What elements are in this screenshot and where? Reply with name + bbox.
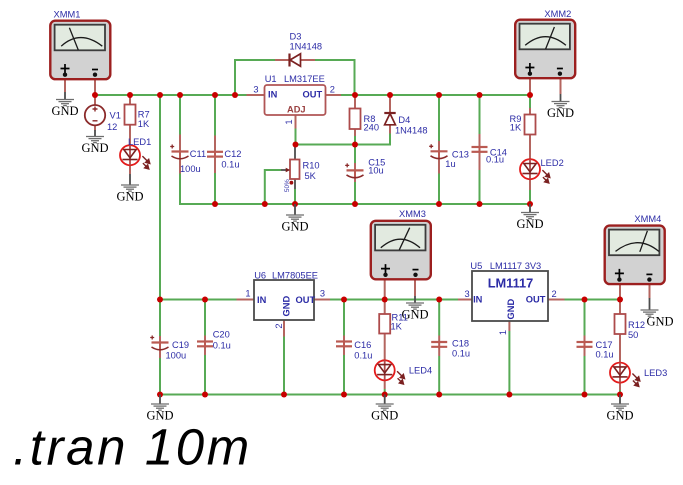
svg-text:LM1117 3V3: LM1117 3V3 xyxy=(490,261,541,271)
junction at (584.5,299.5) xyxy=(582,297,588,303)
svg-text:.tran 10m: .tran 10m xyxy=(13,419,252,476)
capacitor C11 100u xyxy=(170,145,206,175)
diode D4 1N4148 xyxy=(384,113,427,136)
wire XMM2 plus lead xyxy=(529,77,531,95)
svg-text:U1: U1 xyxy=(265,74,277,84)
junction at (355,95) xyxy=(352,92,358,98)
wire lower ground rail with C19 riser xyxy=(160,358,620,395)
wire LED2 bottom segment xyxy=(529,190,531,204)
wire C11 upper lead xyxy=(179,135,181,152)
svg-text:2: 2 xyxy=(552,289,557,299)
U6 pin number 3 xyxy=(320,289,325,299)
svg-text:XMM3: XMM3 xyxy=(399,209,426,219)
wire R8 top lead xyxy=(354,95,356,109)
wire +12V top rail left segment xyxy=(95,94,247,96)
svg-text:50%: 50% xyxy=(284,179,291,192)
wire R7 to LED1 lead xyxy=(129,125,131,146)
junction at (95,95) xyxy=(92,92,98,98)
wire D3 loop left segment xyxy=(235,60,275,95)
wire LED3 lower lead xyxy=(619,383,621,390)
regulator U6 LM7805EE xyxy=(254,270,318,320)
svg-text:OUT: OUT xyxy=(296,295,316,305)
potentiometer R10 5K 50% xyxy=(284,160,320,193)
LED LED1 xyxy=(120,137,151,169)
capacitor C12 0.1u xyxy=(207,149,241,170)
svg-text:1N4148: 1N4148 xyxy=(290,42,323,52)
capacitor C15 10u xyxy=(345,158,385,179)
wire XMM4 minus lead xyxy=(649,282,651,299)
svg-text:GND: GND xyxy=(81,141,108,155)
resistor R9 1K xyxy=(510,114,536,135)
svg-text:R7: R7 xyxy=(138,110,150,120)
LED LED3 xyxy=(610,363,667,387)
wire R12 top lead xyxy=(619,300,621,315)
wire C18 top drop xyxy=(438,300,440,336)
wire C20 top drop xyxy=(204,300,206,336)
junction at (160,299.5) xyxy=(157,297,163,303)
svg-text:1K: 1K xyxy=(391,322,403,332)
junction at (295.5,144.5) xyxy=(293,142,299,148)
wire +12V top rail right segment xyxy=(341,94,530,96)
wire U1 pin 2 lead xyxy=(326,94,342,96)
wire R8 bottom to ADJ rail xyxy=(354,136,356,145)
wire C15 top drop xyxy=(354,145,356,164)
wire C12 bottom segment xyxy=(214,173,216,204)
wire R11 top lead xyxy=(384,300,386,315)
wire U5 pin 2 lead xyxy=(548,299,565,301)
ground under XMM2 minus xyxy=(547,94,574,120)
wire R10 wiper gray segment xyxy=(281,169,286,171)
ground under XMM3 minus xyxy=(401,296,428,322)
junction at (584.5,394.5) xyxy=(582,392,588,398)
wire C18 lower lead xyxy=(438,349,440,356)
wire C20 upper lead xyxy=(204,336,206,342)
wire U6 pin 1 lead xyxy=(237,299,255,301)
junction at (530,95) xyxy=(527,92,533,98)
wire C18 bottom segment xyxy=(438,356,440,395)
wire C20 bottom segment xyxy=(204,355,206,395)
junction at (264.8,204) xyxy=(262,201,268,207)
wire R10 bottom segment xyxy=(294,189,296,204)
svg-text:1: 1 xyxy=(245,289,250,299)
svg-text:R10: R10 xyxy=(303,161,320,171)
svg-text:D3: D3 xyxy=(290,32,302,42)
wire R7 top lead xyxy=(129,95,131,105)
capacitor C14 0.1u xyxy=(472,147,507,165)
wire C16 bottom segment xyxy=(343,355,345,395)
junction at (344,394.5) xyxy=(341,392,347,398)
diode D3 1N4148 xyxy=(290,32,323,67)
junction at (284,394.5) xyxy=(281,392,287,398)
capacitor C13 1u xyxy=(429,144,469,169)
svg-text:2: 2 xyxy=(274,324,284,329)
regulator U5 LM1117 3V3 xyxy=(470,261,548,321)
resistor R12 50 xyxy=(615,314,646,340)
capacitor C20 0.1u xyxy=(197,330,231,351)
junction at (439,204) xyxy=(436,201,442,207)
wire U5 output rail segment xyxy=(565,299,621,301)
svg-text:IN: IN xyxy=(257,295,267,305)
svg-text:0.1u: 0.1u xyxy=(596,350,614,360)
wire V1 bottom lead xyxy=(94,125,96,130)
wire C12 lower lead xyxy=(214,157,216,174)
wire R10 bottom gray lead xyxy=(294,179,296,189)
wire 5V input rail left segment xyxy=(160,299,237,301)
wire U6 output rail segment xyxy=(330,299,458,301)
wire XMM3 plus lead xyxy=(384,277,386,300)
U6 pin number 2 xyxy=(274,324,284,329)
wire left vertical feed to lower section xyxy=(159,95,161,300)
svg-text:C17: C17 xyxy=(596,340,613,350)
svg-text:3: 3 xyxy=(253,85,258,95)
capacitor C19 100u xyxy=(150,336,189,361)
svg-text:10u: 10u xyxy=(368,166,384,176)
svg-text:OUT: OUT xyxy=(526,295,546,305)
svg-text:V1: V1 xyxy=(110,111,121,121)
wire D3 cathode lead xyxy=(275,59,289,61)
svg-text:U5: U5 xyxy=(470,261,482,271)
capacitor C16 0.1u xyxy=(336,340,372,361)
svg-text:0.1u: 0.1u xyxy=(221,160,239,170)
wire D4 anode lead xyxy=(389,125,391,134)
wire C13 bottom segment xyxy=(438,174,440,205)
wire C20 lower lead xyxy=(204,349,206,356)
wire R10 wiper wire xyxy=(265,170,281,204)
svg-text:GND: GND xyxy=(51,104,78,118)
junction at (355,204) xyxy=(352,201,358,207)
wire C19 upper lead xyxy=(159,336,161,343)
capacitor C18 0.1u xyxy=(431,339,470,359)
wire C11 top drop xyxy=(179,95,181,135)
ground under LED4 xyxy=(371,395,398,423)
wire U5 pin 3 lead xyxy=(458,299,472,301)
wire C12 top drop xyxy=(214,95,216,136)
spice directive .tran 10m xyxy=(13,419,252,476)
wire C19 lower lead xyxy=(159,351,161,358)
ground under LED3 xyxy=(606,395,633,423)
wire XMM4 plus lead xyxy=(619,282,621,300)
svg-text:GND: GND xyxy=(516,217,543,231)
svg-text:1: 1 xyxy=(284,120,294,125)
wire C13 lower lead xyxy=(438,159,440,174)
svg-text:GND: GND xyxy=(371,409,398,423)
wire C16 upper lead xyxy=(343,336,345,342)
svg-text:XMM2: XMM2 xyxy=(544,9,571,19)
U5 pin number 2 xyxy=(552,289,557,299)
voltage source V1 12V xyxy=(85,105,121,132)
junction at (344,299.5) xyxy=(341,297,347,303)
multimeter XMM2 xyxy=(515,9,575,78)
wire U1 pin 3 lead xyxy=(247,94,265,96)
wire C17 top drop xyxy=(584,300,586,336)
svg-text:C18: C18 xyxy=(452,339,469,349)
svg-text:1K: 1K xyxy=(138,119,150,129)
wire C12 upper lead xyxy=(214,136,216,153)
svg-text:2: 2 xyxy=(330,85,335,95)
junction at (205,394.5) xyxy=(202,392,208,398)
svg-text:240: 240 xyxy=(364,123,380,133)
wire LED1 bottom lead xyxy=(129,165,131,174)
junction at (355,144.5) xyxy=(352,142,358,148)
svg-text:50: 50 xyxy=(628,330,638,340)
wire C15 upper lead xyxy=(354,163,356,170)
svg-text:1u: 1u xyxy=(445,159,455,169)
wire C16 lower lead xyxy=(343,349,345,356)
junction at (439,95) xyxy=(436,92,442,98)
svg-text:D4: D4 xyxy=(398,115,410,125)
svg-text:C16: C16 xyxy=(354,340,371,350)
junction at (160,394.5) xyxy=(157,392,163,398)
junction at (180,95) xyxy=(177,92,183,98)
svg-text:LED3: LED3 xyxy=(644,368,667,378)
ground under LED2 rail xyxy=(516,204,543,231)
wire upper ground rail with C11 riser xyxy=(180,174,530,205)
wire R10 top gray lead xyxy=(294,146,296,160)
wire C13 top drop xyxy=(438,95,440,141)
svg-text:100u: 100u xyxy=(166,351,187,361)
svg-text:GND: GND xyxy=(547,106,574,120)
svg-text:1N4148: 1N4148 xyxy=(395,126,428,136)
svg-text:LM7805EE: LM7805EE xyxy=(272,270,318,280)
svg-text:C11: C11 xyxy=(190,149,206,159)
resistor R11 1K xyxy=(379,313,408,334)
svg-text:1: 1 xyxy=(498,330,508,335)
wire LED4 lower lead xyxy=(384,380,386,389)
svg-text:12: 12 xyxy=(107,122,117,132)
wire R9 top segment xyxy=(529,95,531,108)
wire LED2 lower lead xyxy=(529,179,531,190)
resistor R8 240 xyxy=(350,109,380,133)
wire U6 ground pin segment xyxy=(283,337,285,395)
svg-text:0.1u: 0.1u xyxy=(213,341,231,351)
junction at (160,95) xyxy=(157,92,163,98)
svg-text:3: 3 xyxy=(465,289,470,299)
svg-text:LED1: LED1 xyxy=(128,137,151,147)
U5 pin number 3 xyxy=(465,289,470,299)
svg-text:GND: GND xyxy=(281,220,308,234)
svg-text:1K: 1K xyxy=(510,123,522,133)
wire C11 lower lead xyxy=(179,160,181,174)
svg-text:GND: GND xyxy=(282,296,292,317)
ground under R10 / upper rail xyxy=(281,204,308,234)
wire LED4 bottom segment xyxy=(384,389,386,395)
wire XMM3 minus lead xyxy=(414,277,416,297)
junction at (530,204) xyxy=(527,201,533,207)
svg-text:LM317EE: LM317EE xyxy=(284,74,325,84)
junction at (509.4,394.5) xyxy=(506,392,512,398)
junction at (620,394.5) xyxy=(617,392,623,398)
svg-text:0.1u: 0.1u xyxy=(354,351,372,361)
wire U5 pin 1 ground lead xyxy=(508,321,510,331)
wire C15 lower lead xyxy=(354,179,356,183)
multimeter XMM4 xyxy=(605,214,665,284)
svg-text:0.1u: 0.1u xyxy=(452,349,470,359)
svg-text:C19: C19 xyxy=(172,340,189,350)
svg-text:XMM1: XMM1 xyxy=(54,10,81,20)
junction at (295,204) xyxy=(292,201,298,207)
wire C14 lower lead xyxy=(479,152,481,170)
junction at (479.5,95) xyxy=(477,92,483,98)
svg-text:IN: IN xyxy=(473,295,483,305)
wire R9 to LED2 lead xyxy=(529,135,531,160)
wire C14 bottom segment xyxy=(479,170,481,204)
wire C14 top drop xyxy=(479,95,481,134)
svg-text:R12: R12 xyxy=(628,320,645,330)
wire XMM2 minus lead xyxy=(560,77,562,94)
svg-text:GND: GND xyxy=(606,409,633,423)
wire R9 upper lead xyxy=(529,108,531,115)
wire U6 pin 2 ground lead xyxy=(283,320,285,337)
ground under XMM1 plus xyxy=(51,92,78,118)
ground under LED1 xyxy=(116,174,143,204)
svg-text:C13: C13 xyxy=(452,150,469,160)
svg-text:IN: IN xyxy=(268,89,278,99)
junction at (479.5,204) xyxy=(477,201,483,207)
wire C17 bottom segment xyxy=(584,356,586,395)
wire C16 top drop xyxy=(343,300,345,336)
svg-text:LED2: LED2 xyxy=(541,158,564,168)
svg-text:C20: C20 xyxy=(213,330,230,340)
junction at (384.7,394.5) xyxy=(382,392,388,398)
capacitor C17 0.1u xyxy=(577,340,614,360)
wire C15 bottom segment xyxy=(354,182,356,204)
wire XMM1 minus lead / V1 top lead xyxy=(94,77,96,106)
wire R8 bottom lead xyxy=(354,129,356,136)
U1 pin number 2 xyxy=(330,85,335,95)
wire C14 upper lead xyxy=(479,134,481,147)
junction at (390,95) xyxy=(387,92,393,98)
wire C19 top drop xyxy=(159,300,161,337)
wire ADJ node wire to D4 xyxy=(296,129,391,145)
U1 pin number 3 xyxy=(253,85,258,95)
wire C17 upper lead xyxy=(584,336,586,343)
junction at (215,95) xyxy=(212,92,218,98)
wire C17 lower lead xyxy=(584,349,586,356)
LED LED4 xyxy=(375,360,432,384)
svg-text:C12: C12 xyxy=(224,149,241,159)
wire D4 cathode lead xyxy=(389,95,391,112)
junction at (620,299.5) xyxy=(617,297,623,303)
ground lower-left rail xyxy=(146,395,173,423)
svg-text:0.1u: 0.1u xyxy=(486,155,504,165)
wire U5 ground pin segment xyxy=(508,331,510,395)
ground under XMM4 minus xyxy=(641,298,674,329)
svg-text:100u: 100u xyxy=(180,164,201,174)
junction at (130,95) xyxy=(127,92,133,98)
junction at (384.7,299.5) xyxy=(382,297,388,303)
LED LED2 xyxy=(520,158,564,183)
U1 pin number 1 xyxy=(284,120,294,125)
regulator U1 LM317EE xyxy=(265,74,326,115)
svg-text:XMM4: XMM4 xyxy=(634,214,661,224)
wire U6 pin 3 lead xyxy=(314,299,330,301)
svg-text:GND: GND xyxy=(646,315,673,329)
wire U1 ADJ pin lead xyxy=(295,115,297,129)
svg-text:ADJ: ADJ xyxy=(287,105,306,115)
wire D3 anode lead xyxy=(301,59,316,61)
wire D3 loop right segment xyxy=(315,60,355,95)
U6 pin number 1 xyxy=(245,289,250,299)
wire C13 upper lead xyxy=(438,141,440,151)
svg-text:GND: GND xyxy=(116,190,143,204)
svg-text:3: 3 xyxy=(320,289,325,299)
U5 pin number 1 xyxy=(498,330,508,335)
svg-text:LED4: LED4 xyxy=(409,366,432,376)
multimeter XMM3 xyxy=(371,209,431,279)
junction at (235,95) xyxy=(232,92,238,98)
svg-text:5K: 5K xyxy=(305,171,317,181)
junction at (439.2,299.5) xyxy=(436,297,442,303)
svg-text:OUT: OUT xyxy=(303,89,323,99)
wire R12 to LED3 lead xyxy=(619,334,621,362)
junction at (215,204) xyxy=(212,201,218,207)
svg-text:U6: U6 xyxy=(254,270,266,280)
svg-text:GND: GND xyxy=(506,299,516,320)
resistor R7 1K xyxy=(125,105,150,130)
junction at (439.2,394.5) xyxy=(436,392,442,398)
svg-text:LM1117: LM1117 xyxy=(488,276,534,291)
wire C18 upper lead xyxy=(438,336,440,343)
wire XMM1 plus lead xyxy=(64,77,66,92)
wire R11 to LED4 lead xyxy=(384,334,386,361)
wire LED3 bottom segment xyxy=(619,390,621,395)
multimeter XMM1 xyxy=(50,10,110,80)
junction at (205,299.5) xyxy=(202,297,208,303)
ground under V1 xyxy=(81,130,108,155)
